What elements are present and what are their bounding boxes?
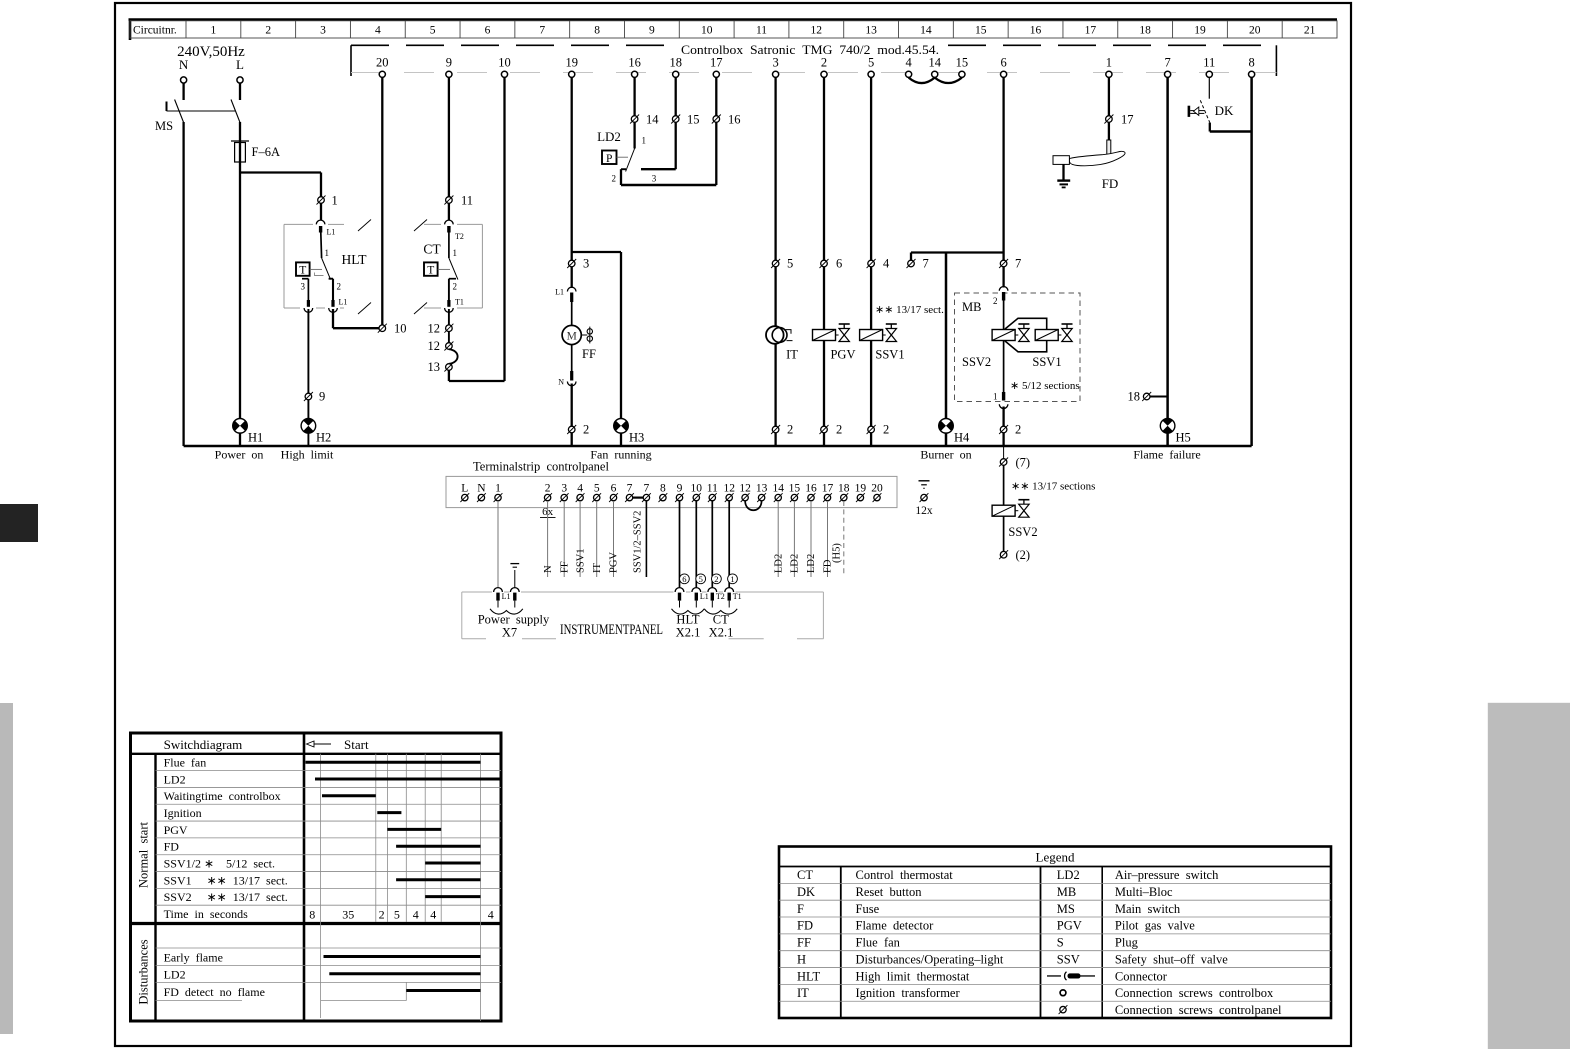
svg-text:1: 1 — [332, 194, 338, 208]
svg-text:H4: H4 — [954, 431, 970, 445]
svg-text:FD: FD — [1102, 176, 1119, 191]
svg-text:N: N — [543, 565, 554, 573]
svg-text:Power supply: Power supply — [478, 613, 550, 627]
svg-text:Power on: Power on — [215, 448, 264, 462]
svg-text:5: 5 — [430, 25, 436, 37]
svg-text:H1: H1 — [248, 431, 263, 445]
svg-text:6: 6 — [485, 25, 491, 37]
svg-text:CT: CT — [797, 868, 813, 882]
svg-text:M: M — [567, 331, 577, 343]
svg-text:20: 20 — [871, 482, 883, 494]
svg-text:8: 8 — [1248, 56, 1254, 70]
svg-text:T: T — [299, 265, 306, 277]
svg-text:Early flame: Early flame — [164, 950, 223, 964]
svg-text:Plug: Plug — [1115, 936, 1139, 950]
svg-text:6: 6 — [611, 482, 617, 494]
svg-text:F: F — [797, 902, 804, 916]
svg-text:FF: FF — [582, 347, 596, 361]
svg-text:6: 6 — [1000, 56, 1006, 70]
svg-text:20: 20 — [1249, 25, 1261, 37]
svg-text:2: 2 — [612, 174, 617, 184]
svg-text:9: 9 — [446, 56, 452, 70]
svg-text:11: 11 — [707, 482, 718, 494]
svg-text:IT: IT — [797, 986, 809, 1000]
svg-text:21: 21 — [1304, 25, 1316, 37]
svg-text:10: 10 — [498, 56, 511, 70]
svg-text:H5: H5 — [1176, 431, 1191, 445]
svg-text:∗∗ 13/17 sect.: ∗∗ 13/17 sect. — [875, 304, 944, 316]
svg-text:2: 2 — [453, 282, 458, 292]
svg-text:Ignition transformer: Ignition transformer — [856, 986, 961, 1000]
svg-text:LD2: LD2 — [597, 129, 621, 144]
svg-text:1: 1 — [453, 248, 458, 258]
svg-text:7: 7 — [1015, 257, 1021, 271]
svg-text:Switchdiagram: Switchdiagram — [164, 737, 243, 752]
svg-text:2: 2 — [821, 56, 827, 70]
svg-text:Connection screws controlpan: Connection screws controlpanel — [1115, 1003, 1282, 1017]
svg-text:DK: DK — [1215, 103, 1234, 118]
svg-text:Disturbances: Disturbances — [137, 939, 151, 1004]
svg-text:T2: T2 — [716, 592, 725, 601]
svg-text:1: 1 — [730, 574, 734, 584]
svg-text:H3: H3 — [629, 431, 644, 445]
svg-text:18: 18 — [1128, 390, 1141, 404]
svg-text:PGV: PGV — [609, 552, 620, 573]
svg-text:SSV2 ∗∗ 13/17 sect.: SSV2 ∗∗ 13/17 sect. — [164, 890, 288, 904]
svg-text:3: 3 — [301, 282, 306, 292]
svg-text:PGV: PGV — [164, 823, 188, 837]
svg-text:Main switch: Main switch — [1115, 902, 1181, 916]
svg-text:PGV: PGV — [830, 348, 855, 362]
svg-text:3: 3 — [652, 174, 657, 184]
svg-text:8: 8 — [660, 482, 666, 494]
svg-text:Waitingtime controlbox: Waitingtime controlbox — [164, 789, 281, 803]
svg-text:FD: FD — [797, 919, 813, 933]
svg-text:Time in seconds: Time in seconds — [164, 907, 249, 921]
svg-text:2: 2 — [545, 482, 551, 494]
svg-text:HLT: HLT — [797, 969, 821, 983]
svg-text:1: 1 — [642, 136, 647, 146]
svg-text:14: 14 — [920, 25, 932, 37]
svg-text:Multi–Bloc: Multi–Bloc — [1115, 885, 1173, 899]
svg-text:∗ 5/12 sections: ∗ 5/12 sections — [1010, 380, 1080, 392]
svg-text:Ignition: Ignition — [164, 806, 202, 820]
svg-text:4: 4 — [375, 25, 381, 37]
svg-text:1: 1 — [325, 248, 330, 258]
svg-text:Safety shut–off valve: Safety shut–off valve — [1115, 952, 1228, 966]
svg-text:Pilot gas valve: Pilot gas valve — [1115, 919, 1195, 933]
svg-text:Start: Start — [344, 737, 369, 752]
svg-text:SSV1: SSV1 — [1032, 355, 1061, 369]
svg-text:N: N — [179, 57, 189, 72]
svg-text:(H5): (H5) — [832, 543, 843, 563]
svg-text:5: 5 — [787, 257, 793, 271]
svg-text:High limit thermostat: High limit thermostat — [856, 969, 970, 983]
svg-text:CT: CT — [423, 242, 441, 257]
svg-text:6: 6 — [836, 257, 842, 271]
svg-text:LD2: LD2 — [164, 772, 186, 786]
svg-text:INSTRUMENTPANEL: INSTRUMENTPANEL — [560, 622, 663, 638]
svg-text:16: 16 — [628, 56, 641, 70]
svg-text:2: 2 — [1015, 423, 1021, 437]
svg-text:SSV2: SSV2 — [1008, 525, 1037, 539]
svg-text:FF: FF — [559, 561, 570, 573]
svg-text:17: 17 — [822, 482, 834, 494]
svg-text:3: 3 — [320, 25, 326, 37]
svg-text:SSV1: SSV1 — [575, 548, 586, 573]
svg-text:12: 12 — [428, 339, 441, 353]
svg-text:17: 17 — [1085, 25, 1097, 37]
svg-text:Flue fan: Flue fan — [856, 936, 901, 950]
svg-text:12: 12 — [739, 482, 751, 494]
svg-text:20: 20 — [376, 56, 389, 70]
svg-text:LD2: LD2 — [1057, 868, 1080, 882]
svg-text:N: N — [477, 482, 486, 494]
svg-text:PGV: PGV — [1057, 919, 1082, 933]
svg-text:18: 18 — [838, 482, 850, 494]
svg-text:11: 11 — [1203, 56, 1215, 70]
svg-text:11: 11 — [756, 25, 767, 37]
svg-text:14: 14 — [772, 482, 784, 494]
svg-text:Terminalstrip controlpanel: Terminalstrip controlpanel — [473, 460, 609, 474]
svg-text:10: 10 — [691, 482, 703, 494]
svg-text:IT: IT — [786, 348, 798, 362]
svg-text:5: 5 — [394, 907, 400, 921]
svg-text:3: 3 — [772, 56, 778, 70]
svg-text:18: 18 — [669, 56, 682, 70]
svg-text:15: 15 — [789, 482, 801, 494]
svg-text:2: 2 — [993, 296, 998, 306]
svg-text:HLT: HLT — [676, 613, 700, 627]
svg-text:4: 4 — [577, 482, 583, 494]
svg-text:T1: T1 — [455, 298, 464, 307]
svg-text:2: 2 — [787, 423, 793, 437]
svg-text:IT: IT — [592, 563, 603, 573]
svg-text:(7): (7) — [1016, 456, 1031, 470]
svg-text:5: 5 — [699, 574, 703, 584]
svg-text:2: 2 — [883, 423, 889, 437]
svg-text:SSV: SSV — [1057, 952, 1080, 966]
svg-text:10: 10 — [394, 322, 407, 336]
svg-text:15: 15 — [975, 25, 987, 37]
svg-text:2: 2 — [265, 25, 271, 37]
svg-text:MB: MB — [1057, 885, 1076, 899]
svg-text:3: 3 — [561, 482, 567, 494]
svg-text:N: N — [558, 378, 564, 387]
svg-text:5: 5 — [868, 56, 874, 70]
svg-text:X7: X7 — [502, 626, 517, 640]
svg-text:15: 15 — [687, 113, 700, 127]
svg-text:7: 7 — [1164, 56, 1170, 70]
svg-text:1: 1 — [211, 25, 217, 37]
svg-text:7: 7 — [539, 25, 545, 37]
svg-text:LD2: LD2 — [773, 554, 784, 573]
svg-text:P: P — [606, 153, 612, 165]
svg-text:9: 9 — [649, 25, 655, 37]
svg-text:Control thermostat: Control thermostat — [856, 868, 954, 882]
svg-text:SSV1/2 ∗ 5/12 sect.: SSV1/2 ∗ 5/12 sect. — [164, 856, 275, 870]
svg-text:SSV2: SSV2 — [962, 355, 991, 369]
svg-text:2: 2 — [714, 574, 718, 584]
svg-text:L1: L1 — [502, 592, 511, 601]
svg-text:LD2: LD2 — [806, 554, 817, 573]
svg-text:FD detect no flame: FD detect no flame — [164, 985, 265, 999]
svg-text:16: 16 — [805, 482, 817, 494]
svg-text:Fuse: Fuse — [856, 902, 880, 916]
svg-text:1: 1 — [993, 392, 998, 402]
svg-text:4: 4 — [883, 257, 890, 271]
svg-text:L1: L1 — [339, 298, 348, 307]
svg-text:X2.1: X2.1 — [676, 626, 701, 640]
svg-text:Disturbances/Operating–light: Disturbances/Operating–light — [856, 952, 1004, 966]
svg-text:8: 8 — [594, 25, 600, 37]
svg-text:17: 17 — [710, 56, 723, 70]
svg-text:3: 3 — [583, 257, 589, 271]
svg-text:MS: MS — [155, 119, 173, 133]
svg-text:9: 9 — [677, 482, 683, 494]
svg-text:6: 6 — [682, 574, 686, 584]
svg-text:∗∗ 13/17 sections: ∗∗ 13/17 sections — [1011, 481, 1095, 493]
svg-text:2: 2 — [583, 423, 589, 437]
svg-text:SSV1/2–SSV2: SSV1/2–SSV2 — [633, 511, 644, 573]
svg-text:High limit: High limit — [281, 448, 334, 462]
svg-text:FD: FD — [164, 840, 180, 854]
svg-text:5: 5 — [594, 482, 600, 494]
svg-text:S: S — [1057, 936, 1064, 950]
svg-text:F–6A: F–6A — [252, 145, 280, 159]
svg-text:MS: MS — [1057, 902, 1075, 916]
svg-text:T1: T1 — [733, 592, 742, 601]
svg-text:14: 14 — [646, 113, 659, 127]
svg-text:16: 16 — [728, 113, 741, 127]
svg-text:4: 4 — [430, 907, 436, 921]
svg-text:12: 12 — [723, 482, 735, 494]
svg-text:X2.1: X2.1 — [709, 626, 734, 640]
svg-text:LD2: LD2 — [164, 967, 186, 981]
svg-text:12: 12 — [428, 322, 441, 336]
svg-text:4: 4 — [413, 907, 419, 921]
svg-text:19: 19 — [565, 56, 578, 70]
svg-text:12x: 12x — [915, 505, 933, 517]
svg-text:2: 2 — [836, 423, 842, 437]
svg-text:(2): (2) — [1016, 548, 1031, 562]
svg-text:Connector: Connector — [1115, 969, 1168, 983]
svg-text:1: 1 — [1106, 56, 1112, 70]
svg-text:T2: T2 — [455, 232, 464, 241]
svg-text:L: L — [236, 57, 244, 72]
svg-text:19: 19 — [855, 482, 867, 494]
svg-text:SSV1 ∗∗ 13/17 sect.: SSV1 ∗∗ 13/17 sect. — [164, 873, 288, 887]
svg-text:7: 7 — [627, 482, 633, 494]
svg-text:H2: H2 — [316, 431, 331, 445]
svg-text:DK: DK — [797, 885, 815, 899]
svg-text:Legend: Legend — [1036, 850, 1075, 865]
svg-text:11: 11 — [461, 194, 473, 208]
svg-text:Burner on: Burner on — [920, 448, 971, 462]
svg-text:2: 2 — [379, 907, 385, 921]
svg-text:FF: FF — [797, 936, 811, 950]
svg-text:7: 7 — [923, 257, 929, 271]
svg-text:Flame failure: Flame failure — [1133, 448, 1200, 462]
svg-text:Reset button: Reset button — [856, 885, 923, 899]
svg-text:4: 4 — [488, 907, 494, 921]
svg-text:LD2: LD2 — [790, 554, 801, 573]
svg-text:Air–pressure switch: Air–pressure switch — [1115, 868, 1219, 882]
svg-text:18: 18 — [1139, 25, 1151, 37]
svg-text:16: 16 — [1030, 25, 1042, 37]
svg-text:L1: L1 — [555, 288, 564, 297]
svg-text:19: 19 — [1194, 25, 1206, 37]
svg-text:12: 12 — [811, 25, 823, 37]
svg-text:2: 2 — [337, 282, 342, 292]
svg-text:8: 8 — [309, 907, 315, 921]
svg-text:4: 4 — [905, 56, 912, 70]
svg-text:SSV1: SSV1 — [875, 348, 904, 362]
svg-text:Flue fan: Flue fan — [164, 756, 207, 770]
svg-text:13: 13 — [428, 360, 441, 374]
svg-text:1: 1 — [495, 482, 501, 494]
svg-text:14: 14 — [928, 56, 941, 70]
svg-text:Normal start: Normal start — [137, 822, 151, 888]
svg-text:9: 9 — [319, 390, 325, 404]
svg-text:10: 10 — [701, 25, 713, 37]
svg-text:35: 35 — [342, 907, 354, 921]
svg-text:17: 17 — [1121, 113, 1134, 127]
svg-text:L1: L1 — [700, 592, 709, 601]
svg-text:Circuitnr.: Circuitnr. — [133, 25, 177, 37]
svg-text:13: 13 — [756, 482, 768, 494]
svg-text:Connection screws controlbox: Connection screws controlbox — [1115, 986, 1274, 1000]
svg-text:Flame detector: Flame detector — [856, 919, 935, 933]
svg-text:13: 13 — [865, 25, 877, 37]
svg-text:15: 15 — [956, 56, 969, 70]
svg-text:MB: MB — [962, 300, 981, 314]
svg-text:7: 7 — [644, 482, 650, 494]
svg-text:H: H — [797, 952, 806, 966]
svg-text:T: T — [427, 265, 434, 277]
svg-text:L1: L1 — [327, 228, 336, 237]
svg-text:CT: CT — [713, 613, 729, 627]
svg-text:HLT: HLT — [342, 252, 368, 267]
svg-text:L: L — [461, 482, 468, 494]
